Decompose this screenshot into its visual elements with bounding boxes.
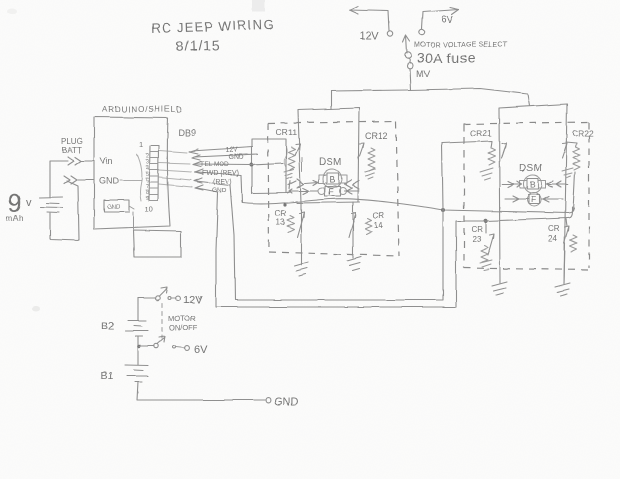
svg-text:(REV): (REV) (213, 179, 232, 186)
svg-text:CR22: CR22 (572, 128, 594, 138)
svg-text:GND: GND (99, 176, 120, 186)
svg-text:30A fuse: 30A fuse (417, 50, 476, 66)
svg-text:14: 14 (374, 221, 383, 230)
svg-text:12V: 12V (183, 294, 203, 306)
svg-text:10: 10 (145, 205, 153, 214)
svg-text:8/1/15: 8/1/15 (175, 37, 220, 55)
svg-text:FWD (REV): FWD (REV) (202, 170, 239, 177)
svg-text:MV: MV (416, 69, 431, 80)
svg-text:CR: CR (471, 225, 483, 234)
svg-text:1: 1 (139, 140, 143, 149)
svg-text:CR11: CR11 (276, 127, 297, 137)
svg-text:B1: B1 (101, 370, 114, 382)
svg-text:23: 23 (472, 235, 481, 244)
svg-text:DB9: DB9 (178, 128, 196, 138)
svg-text:12V: 12V (225, 147, 238, 154)
svg-text:CR: CR (548, 224, 560, 233)
svg-text:CR12: CR12 (365, 131, 388, 141)
svg-text:B2: B2 (101, 320, 114, 332)
svg-text:GND: GND (107, 205, 121, 211)
svg-text:F: F (329, 187, 334, 197)
svg-text:F: F (531, 195, 536, 205)
svg-text:MOTOR VOLTAGE SELECT: MOTOR VOLTAGE SELECT (414, 42, 508, 49)
svg-text:CR: CR (373, 211, 385, 220)
svg-text:Vin: Vin (100, 156, 113, 166)
svg-text:CR21: CR21 (470, 128, 492, 138)
svg-text:13: 13 (276, 218, 285, 227)
svg-text:GND: GND (212, 187, 227, 194)
svg-text:GND: GND (274, 396, 299, 408)
svg-text:v: v (26, 197, 32, 209)
svg-text:TEL MOD: TEL MOD (200, 161, 229, 168)
svg-text:mAh: mAh (6, 214, 24, 223)
svg-text:24: 24 (548, 234, 557, 243)
svg-text:DSM: DSM (319, 157, 342, 168)
svg-text:MOTOR: MOTOR (168, 314, 196, 323)
svg-text:ARDUINO/SHIELD: ARDUINO/SHIELD (102, 105, 183, 114)
svg-text:6V: 6V (194, 344, 208, 356)
svg-text:ON/OFF: ON/OFF (169, 323, 198, 332)
svg-text:GND: GND (228, 154, 244, 161)
svg-text:DSM: DSM (519, 163, 542, 174)
svg-text:PLUG: PLUG (61, 137, 83, 146)
svg-text:B: B (530, 180, 536, 190)
svg-text:12V: 12V (359, 30, 379, 42)
svg-text:6V: 6V (441, 15, 454, 26)
svg-text:B: B (329, 175, 335, 185)
svg-text:CR: CR (275, 209, 287, 218)
svg-text:BATT: BATT (62, 146, 82, 155)
